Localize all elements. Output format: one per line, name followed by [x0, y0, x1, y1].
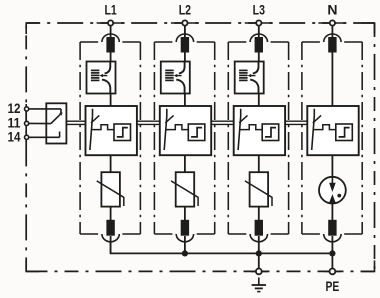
wire spark gap to gas discharge tube module N	[331, 155, 333, 177]
module L1 protection-path border (dash-dot)	[80, 42, 140, 234]
terminal N	[330, 20, 335, 25]
thermal disconnector (bottom) module L2	[181, 220, 189, 236]
remote signalling changeover contact box	[46, 103, 66, 143]
junction node on PE bus at x=258.8	[256, 250, 262, 256]
wire terminal 14 to contact	[29, 136, 60, 138]
terminal L3	[256, 20, 261, 25]
bushing arc at module N bottom	[324, 234, 341, 242]
wire switch to spark gap module L1	[110, 94, 112, 107]
svg-text:PE: PE	[326, 278, 340, 294]
wire L2 terminal to top disconnector	[184, 26, 186, 38]
changeover contact blade with arrow	[51, 114, 60, 123]
svg-text:L3: L3	[253, 1, 265, 17]
earth terminal	[256, 269, 262, 275]
junction node on PE bus at x=332.4	[329, 250, 335, 256]
wire GDT to bottom disconnector module N	[331, 203, 333, 221]
triggered spark gap with trigger circuit, module L1	[86, 106, 137, 155]
bushing arc at module L2 bottom	[176, 234, 193, 242]
thermal disconnector (top) module N	[328, 37, 336, 53]
wire top disconnector to arc-quench switch module L3	[258, 53, 260, 63]
module L2 protection-path border (dash-dot)	[154, 42, 214, 234]
wire varistor to bottom disconnector module L3	[258, 207, 260, 222]
triggered spark gap with trigger circuit, module N	[307, 106, 358, 155]
varistor module L3	[245, 172, 272, 206]
solid border stubs at terminals	[26, 23, 374, 271]
bushing arc at module L1 top	[102, 34, 119, 42]
wire bus to earth terminal	[258, 253, 260, 268]
wire N terminal to top disconnector	[331, 26, 333, 38]
module L3 protection-path border (dash-dot)	[228, 42, 288, 234]
wire top disconnector to arc-quench switch module L2	[184, 53, 186, 63]
arc-quenching disconnect switch module L3	[235, 62, 264, 94]
wire varistor to bottom disconnector module L1	[110, 207, 112, 222]
bushing arc at module L2 top	[176, 34, 193, 42]
wire bottom disconnector to PE bus module L2	[184, 236, 186, 253]
earth (ground) symbol	[252, 278, 266, 292]
varistor module L1	[97, 172, 124, 206]
wire varistor to bottom disconnector module L2	[184, 207, 186, 222]
svg-text:14: 14	[8, 128, 21, 144]
wire L1 terminal to top disconnector	[110, 26, 112, 38]
thermal disconnector (bottom) module L1	[106, 220, 114, 236]
terminal 14	[25, 135, 29, 139]
svg-text:L1: L1	[104, 1, 116, 17]
thermal disconnector (bottom) module L3	[255, 220, 263, 236]
mechanical linkage (double line)	[211, 121, 234, 124]
terminal PE	[330, 269, 336, 275]
mechanical linkage (double line)	[285, 121, 307, 124]
wire spark gap to varistor module L3	[258, 155, 260, 172]
wire L3 terminal to top disconnector	[258, 26, 260, 38]
svg-text:N: N	[327, 1, 337, 17]
module N protection-path border (dash-dot)	[302, 42, 362, 234]
terminal L1	[108, 20, 113, 25]
wire bottom disconnector to PE bus module L3	[258, 236, 260, 253]
bushing arc at module L1 bottom	[102, 234, 119, 242]
triggered spark gap with trigger circuit, module L2	[160, 106, 211, 155]
wire spark gap to varistor module L1	[110, 155, 112, 172]
arc-quenching disconnect switch module L1	[87, 62, 116, 94]
thermal disconnector (bottom) module N	[328, 220, 336, 236]
bushing arc at module L3 top	[250, 34, 267, 42]
wire top disconnector to spark gap module N	[331, 53, 333, 107]
wire bottom disconnector to PE bus module L1	[110, 236, 112, 253]
triggered spark gap with trigger circuit, module L3	[234, 106, 285, 155]
enclosure border (dash-dot outline of the device)	[26, 23, 374, 271]
junction node on PE bus at x=184.9	[182, 250, 188, 256]
wire top disconnector to arc-quench switch module L1	[110, 53, 112, 63]
thermal disconnector (top) module L2	[181, 37, 189, 53]
wire terminal 11 to contact pivot	[29, 122, 51, 124]
thermal disconnector (top) module L1	[106, 37, 114, 53]
terminal 11	[25, 121, 29, 125]
varistor module L2	[171, 172, 198, 206]
bushing arc at module L3 bottom	[250, 234, 267, 242]
terminal 12	[25, 107, 29, 111]
wire bus to PE terminal	[331, 253, 333, 268]
wire bottom disconnector to PE bus module N	[331, 236, 333, 253]
wire switch to spark gap module L3	[258, 94, 260, 107]
svg-text:L2: L2	[179, 1, 191, 17]
terminal L2	[182, 20, 187, 25]
arc-quenching disconnect switch module L2	[161, 62, 190, 94]
wire terminal 12 to contact	[29, 108, 61, 110]
bushing arc at module N top	[324, 34, 341, 42]
wire switch to spark gap module L2	[184, 94, 186, 107]
gas discharge tube (N-PE spark gap) module N	[319, 177, 346, 204]
mechanical linkage (double line)	[66, 121, 85, 124]
PE collecting bus wire	[111, 241, 333, 253]
thermal disconnector (top) module L3	[255, 37, 263, 53]
wire spark gap to varistor module L2	[184, 155, 186, 172]
mechanical linkage (double line)	[137, 121, 160, 124]
